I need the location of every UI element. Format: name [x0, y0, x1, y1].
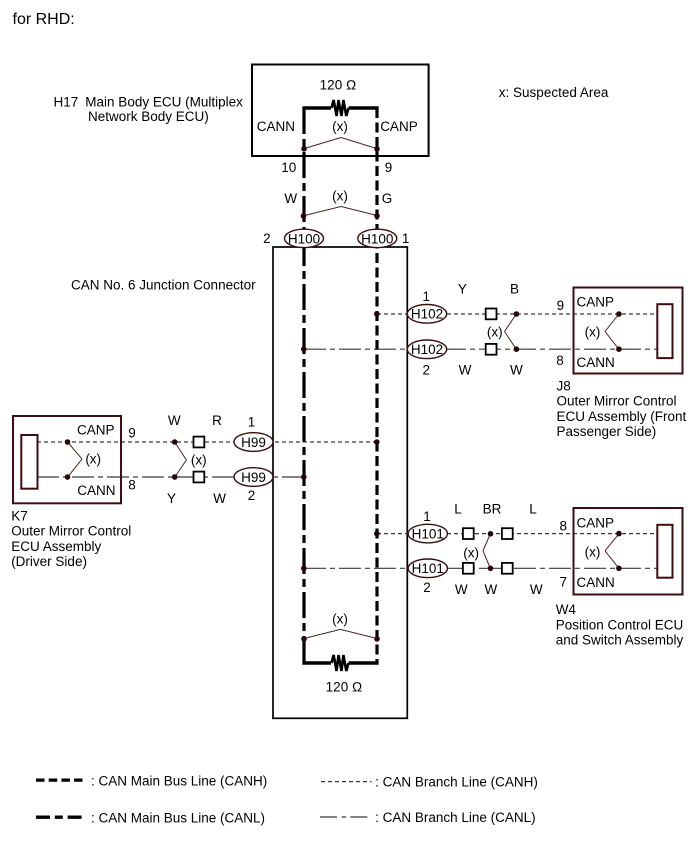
junction dot inside J8 CANL	[616, 346, 622, 352]
inline connector square W4 CANH right	[502, 528, 513, 539]
svg-text:R: R	[212, 413, 222, 428]
label K7 name block	[11, 509, 131, 570]
junction dot inside W4 CANL	[616, 566, 622, 572]
svg-text:W: W	[510, 363, 523, 378]
svg-text:: CAN Main Bus Line (CANL): : CAN Main Bus Line (CANL)	[91, 811, 265, 826]
svg-text:W: W	[284, 191, 297, 206]
svg-text:L: L	[454, 502, 462, 517]
svg-text:(Driver Side): (Driver Side)	[11, 554, 87, 569]
junction connector box (CAN No. 6)	[273, 247, 407, 718]
inline connector square W4 CANH left	[463, 528, 474, 539]
svg-text:8: 8	[128, 478, 136, 493]
junction dot inside K7 CANH	[65, 439, 71, 445]
svg-text:1: 1	[248, 415, 256, 430]
junction dot CANH in H17	[374, 146, 380, 152]
suspected-area marker (x) inside H17	[305, 119, 377, 149]
connector H100 (right, pin 1)	[358, 229, 397, 247]
ECU box H17 (Main Body ECU)	[252, 65, 429, 157]
svg-text:W: W	[459, 363, 472, 378]
connector H100 (left, pin 2)	[285, 229, 324, 247]
inline connector square K7 CANH	[194, 437, 205, 448]
inline connector square W4 CANL right	[502, 563, 513, 574]
suspected-area marker (x) on W4 branch	[463, 535, 490, 568]
junction dot inside K7 CANL	[65, 474, 71, 480]
svg-text:2: 2	[422, 363, 430, 378]
legend sample CAN branch CANH	[321, 781, 372, 783]
connector H102 pin 1	[407, 305, 446, 324]
junction dot CANL bus to K7 branch	[301, 474, 307, 480]
connector H101 pin 1	[408, 524, 447, 543]
svg-text:Position Control ECU: Position Control ECU	[556, 617, 684, 632]
svg-text:Outer Mirror Control: Outer Mirror Control	[11, 524, 131, 539]
svg-text:J8: J8	[557, 379, 571, 394]
svg-text:(x): (x)	[332, 119, 348, 134]
svg-text:: CAN Branch Line (CANL): : CAN Branch Line (CANL)	[375, 810, 536, 825]
svg-text:H102: H102	[411, 307, 443, 322]
svg-text:BR: BR	[483, 502, 502, 517]
legend sample CAN main bus CANL	[36, 816, 83, 819]
svg-text:2: 2	[423, 580, 431, 595]
svg-text:9: 9	[128, 426, 136, 441]
wire CANH main bus (right vertical, thick dashed)	[375, 108, 378, 663]
junction dot CANL bus to J8 branch	[301, 346, 307, 352]
svg-text:H99: H99	[241, 435, 266, 450]
junction dot CANL above H100	[301, 213, 307, 219]
svg-text:W: W	[485, 582, 498, 597]
svg-text:B: B	[510, 282, 519, 297]
svg-text:W4: W4	[556, 602, 577, 617]
svg-text:1: 1	[422, 289, 430, 304]
junction dot CANL in H17	[301, 146, 307, 152]
svg-text:: CAN Main Bus Line (CANH): : CAN Main Bus Line (CANH)	[91, 774, 267, 789]
svg-text:W: W	[168, 413, 181, 428]
resistor 120 ohm (bottom, inside junction box)	[302, 655, 378, 671]
svg-text:(x): (x)	[191, 453, 207, 468]
junction dot W4 branch CANL	[488, 566, 494, 572]
svg-text:G: G	[382, 191, 393, 206]
wire CANL branch to J8 (thin dash-dot)	[304, 348, 658, 350]
svg-text:Main Body ECU (Multiplex: Main Body ECU (Multiplex	[85, 95, 243, 110]
svg-text:1: 1	[402, 231, 410, 246]
suspected-area marker (x) inside K7	[68, 443, 101, 477]
svg-text:H17: H17	[54, 95, 79, 110]
svg-text:(x): (x)	[463, 546, 479, 561]
junction dot CANH above H100	[374, 213, 380, 219]
svg-text:CANP: CANP	[577, 295, 615, 310]
svg-text:(x): (x)	[487, 325, 503, 340]
junction dot inside W4 CANH	[616, 531, 622, 537]
svg-text:H101: H101	[412, 561, 444, 576]
svg-text:(x): (x)	[585, 545, 601, 560]
wire CANL branch K7 (thin dash-dot)	[37, 476, 304, 478]
svg-text:1: 1	[423, 509, 431, 524]
internal connector rect (W4)	[657, 525, 672, 578]
resistor 120 ohm (top, inside H17)	[302, 100, 378, 116]
internal connector rect (J8)	[657, 304, 672, 358]
svg-text:(x): (x)	[332, 612, 348, 627]
svg-text:x: Suspected Area: x: Suspected Area	[499, 85, 609, 100]
svg-text:(x): (x)	[585, 325, 601, 340]
svg-text:ECU Assembly: ECU Assembly	[11, 539, 101, 554]
svg-text:Y: Y	[458, 282, 467, 297]
svg-text:CANP: CANP	[577, 516, 615, 531]
suspected-area marker (x) at bottom resistor	[305, 612, 377, 639]
svg-text:120 Ω: 120 Ω	[326, 679, 363, 694]
legend sample CAN branch CANL	[320, 816, 371, 818]
svg-text:9: 9	[385, 160, 393, 175]
svg-text:H100: H100	[361, 231, 393, 246]
svg-text:(x): (x)	[85, 452, 101, 467]
svg-text:: CAN Branch Line (CANH): : CAN Branch Line (CANH)	[375, 774, 538, 789]
junction dot CANH bus to W4 branch	[374, 531, 380, 537]
svg-text:W: W	[213, 491, 226, 506]
svg-text:CANN: CANN	[577, 575, 615, 590]
svg-text:Passenger Side): Passenger Side)	[557, 424, 657, 439]
svg-text:Y: Y	[167, 491, 176, 506]
connector H99 pin 2	[234, 468, 273, 487]
junction dot J8 branch CANL	[514, 346, 520, 352]
junction dot J8 branch CANH	[514, 311, 520, 317]
ECU box J8	[574, 288, 683, 374]
inline connector square K7 CANL	[194, 472, 205, 483]
svg-text:7: 7	[559, 575, 567, 590]
wire CANH branch to W4 (thin dashed)	[377, 533, 658, 535]
label J8 name block	[557, 379, 687, 440]
junction dot CANL bus to W4 branch	[301, 566, 307, 572]
svg-text:CANN: CANN	[77, 483, 115, 498]
legend sample CAN main bus CANH	[36, 778, 83, 781]
svg-text:8: 8	[559, 519, 567, 534]
ECU box K7	[13, 416, 121, 503]
suspected-area marker (x) on J8 branch	[487, 315, 516, 349]
svg-text:K7: K7	[11, 509, 28, 524]
inline connector square W4 CANL left	[463, 563, 474, 574]
svg-text:Network Body ECU): Network Body ECU)	[88, 109, 209, 124]
wire CANH branch to J8 (thin dashed)	[377, 313, 658, 315]
svg-text:10: 10	[281, 160, 296, 175]
svg-text:L: L	[529, 502, 537, 517]
connector H102 pin 2	[407, 340, 446, 359]
svg-text:CANN: CANN	[257, 119, 295, 134]
svg-text:for RHD:: for RHD:	[13, 11, 75, 28]
svg-text:8: 8	[556, 353, 564, 368]
suspected-area marker (x) between H17 and H100	[304, 189, 377, 216]
svg-text:(x): (x)	[332, 189, 348, 204]
svg-text:Outer Mirror Control: Outer Mirror Control	[557, 394, 677, 409]
svg-text:H102: H102	[411, 342, 443, 357]
svg-text:9: 9	[557, 298, 565, 313]
suspected-area marker (x) inside J8	[585, 315, 619, 349]
svg-text:W: W	[530, 582, 543, 597]
svg-text:CANP: CANP	[77, 422, 115, 437]
junction dot CANH bus to K7 branch	[374, 439, 380, 445]
label W4 name block	[556, 602, 684, 648]
suspected-area marker (x) on K7 branch	[175, 443, 207, 477]
connector H99 pin 1	[234, 433, 273, 452]
ECU box W4	[574, 508, 683, 595]
svg-text:2: 2	[263, 231, 271, 246]
wire CANL branch to W4 (thin dash-dot)	[304, 567, 658, 569]
inline connector square J8 CANL	[486, 344, 497, 355]
svg-text:H101: H101	[412, 526, 444, 541]
svg-text:W: W	[455, 582, 468, 597]
junction dot CANH bus to J8 branch	[374, 311, 380, 317]
junction dot K7 branch CANL	[172, 474, 178, 480]
svg-text:H99: H99	[241, 470, 266, 485]
junction dot CANL at bottom resistor	[301, 636, 307, 642]
inline connector square J8 CANH	[486, 309, 497, 320]
junction dot K7 branch CANH	[172, 439, 178, 445]
connector H101 pin 2	[408, 559, 447, 578]
junction dot inside J8 CANH	[616, 311, 622, 317]
svg-text:2: 2	[248, 488, 256, 503]
label H17 Main Body ECU	[54, 95, 244, 125]
svg-text:CAN No. 6 Junction Connector: CAN No. 6 Junction Connector	[71, 278, 256, 293]
internal connector rect (K7)	[21, 435, 37, 489]
svg-text:CANN: CANN	[577, 355, 615, 370]
svg-text:120 Ω: 120 Ω	[320, 78, 357, 93]
svg-text:CANP: CANP	[380, 119, 418, 134]
svg-text:ECU Assembly (Front: ECU Assembly (Front	[557, 409, 687, 424]
svg-text:H100: H100	[288, 231, 320, 246]
suspected-area marker (x) inside W4	[585, 534, 619, 568]
junction dot W4 branch CANH	[488, 531, 494, 537]
svg-text:and Switch Assembly: and Switch Assembly	[556, 633, 684, 648]
junction dot CANH at bottom resistor	[374, 636, 380, 642]
wire CANH branch K7 (thin dashed)	[37, 441, 377, 443]
wire CANL main bus (left vertical, thick dash-dot)	[302, 108, 305, 663]
